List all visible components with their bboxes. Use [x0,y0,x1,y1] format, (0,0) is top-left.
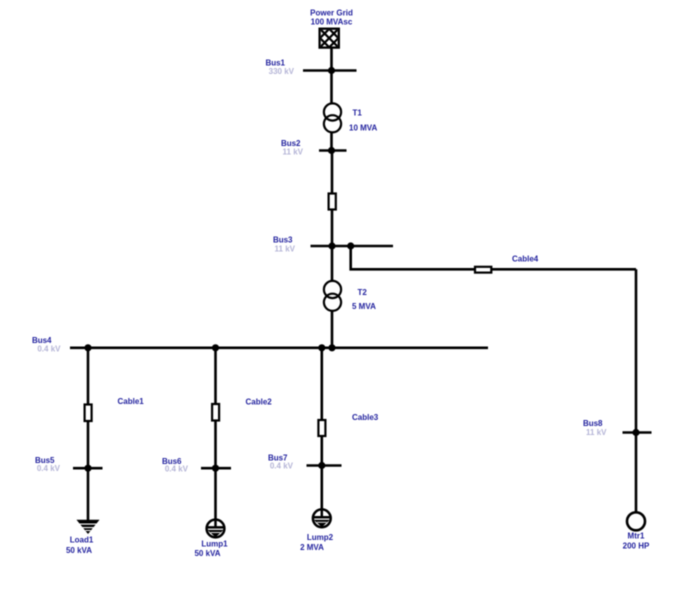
svg-text:Cable1: Cable1 [118,397,145,406]
svg-text:Bus3: Bus3 [273,236,293,245]
wire Bus3 branch down and right to Cable4 [351,246,636,269]
svg-text:2 MVA: 2 MVA [300,543,324,552]
Lump1 labels [194,539,228,558]
svg-text:0.4 kV: 0.4 kV [270,461,294,470]
cable C2 symbol [212,404,219,421]
svg-text:T1: T1 [353,109,363,118]
Bus2 labels [281,139,304,157]
wire grid to Bus1 [330,48,333,71]
svg-text:50 kVA: 50 kVA [66,546,92,555]
svg-text:T2: T2 [358,288,368,297]
svg-text:Lump1: Lump1 [201,539,228,548]
T2 labels [352,288,376,311]
svg-text:5 MVA: 5 MVA [352,302,376,311]
svg-text:0.4 kV: 0.4 kV [165,465,189,474]
transformer T1 [324,103,341,132]
feeder 3 wire Bus4 to Lump2 [320,348,323,510]
lumped load Lump1 symbol [207,520,225,538]
Bus5 labels [35,456,61,473]
svg-text:11 kV: 11 kV [283,148,304,157]
svg-text:11 kV: 11 kV [275,245,296,254]
Mtr1 labels [623,532,650,551]
Bus3 labels [273,236,296,254]
Bus1 [303,67,357,74]
svg-text:11 kV: 11 kV [586,428,607,437]
wire Bus1 to T1 [330,71,333,105]
svg-text:Cable2: Cable2 [246,398,273,407]
svg-text:Power Grid: Power Grid [310,9,353,18]
svg-text:Bus8: Bus8 [583,419,603,428]
svg-text:Load1: Load1 [70,536,94,545]
Bus6 labels [162,457,189,474]
wire Bus2 to Bus3 [331,151,334,247]
cable C3 symbol [318,420,325,436]
wire T1 to Bus2 [330,131,333,151]
svg-text:0.4 kV: 0.4 kV [37,345,61,354]
motor Mtr1 [627,512,645,530]
Bus1 labels [265,59,294,77]
svg-text:200 HP: 200 HP [623,542,650,551]
svg-text:Lump2: Lump2 [307,533,334,542]
Load1 labels [66,536,94,556]
svg-text:Cable3: Cable3 [352,413,379,422]
Bus4 [70,344,488,351]
static load Load1 symbol [78,520,99,533]
Bus8 [623,429,652,436]
Bus3 [311,242,394,249]
power grid U1 label [310,9,353,27]
cable C4 symbol [475,267,491,273]
Bus5 [73,465,103,472]
Bus4 labels [32,336,61,354]
wire down to Bus8 and Mtr1 [635,269,638,512]
svg-text:0.4 kV: 0.4 kV [37,464,61,473]
svg-text:Mtr1: Mtr1 [628,532,645,541]
cable C1 symbol [85,405,92,422]
Bus8 labels [583,419,607,437]
svg-text:10 MVA: 10 MVA [349,124,378,133]
lumped load Lump2 symbol [313,509,331,527]
feeder 2 wire Bus4 to Lump1 [214,348,217,520]
Bus2 [319,147,347,154]
feeder 1 wire Bus4 to Load1 [87,348,90,521]
T1 labels [349,109,378,133]
svg-text:Cable4: Cable4 [512,255,539,264]
svg-text:100 MVAsc: 100 MVAsc [311,18,353,27]
cable symbol between Bus2 and Bus3 [329,194,336,210]
power grid U1 symbol [315,13,345,63]
Bus6 [201,465,231,472]
svg-text:50 kVA: 50 kVA [194,549,220,558]
Bus7 labels [268,453,294,470]
wire Bus3 to T2 to Bus4 [331,246,334,348]
svg-text:330 kV: 330 kV [269,67,295,76]
Lump2 labels [300,533,334,552]
Bus7 [307,462,342,469]
transformer T2 [324,281,341,311]
